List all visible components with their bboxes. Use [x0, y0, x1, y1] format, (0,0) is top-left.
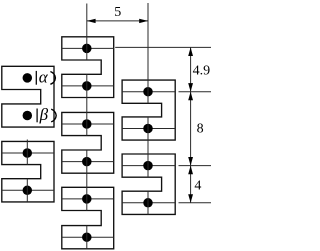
- midline through dot M3b: [62, 236, 114, 238]
- midline through dot M1a: [62, 47, 114, 49]
- arrowhead up at y=47.9: [188, 47, 193, 56]
- arrowheads meeting at y=91.7: [188, 83, 193, 92]
- svg-text:4: 4: [194, 178, 201, 193]
- axis line, left column element L2 (x=27.3): [26, 140, 28, 165]
- resonator R1 (slotted S-element, right column): [122, 80, 175, 140]
- svg-text:α: α: [39, 68, 49, 87]
- dot L1a: [23, 73, 33, 83]
- midline through dot R2a: [122, 165, 175, 167]
- svg-text:β: β: [39, 105, 49, 124]
- angle bracket of |α>: [50, 72, 55, 85]
- midline through dot M2a: [62, 123, 114, 125]
- arrowhead left of dimension 5: [87, 19, 96, 23]
- midline through dot L2b: [2, 189, 54, 191]
- dot R1b: [143, 124, 153, 134]
- dot M1b: [82, 81, 92, 91]
- svg-text:5: 5: [114, 5, 121, 20]
- dot L2a: [23, 148, 33, 158]
- midline through dot R1b: [122, 128, 175, 130]
- midline through dot M1b: [62, 85, 114, 87]
- dot R1a: [143, 87, 153, 97]
- dimension line "5" (top, between column axes): [87, 20, 148, 22]
- angle bracket of |β>: [51, 109, 56, 122]
- midline through dot L2a: [2, 152, 54, 154]
- resonator R2 (slotted S-element, right column): [122, 154, 175, 214]
- resonator M1 (slotted S-element, middle column): [62, 37, 114, 98]
- dot M3a: [82, 194, 92, 204]
- dot R2b: [143, 198, 153, 208]
- tick line at y=202.8: [179, 202, 212, 204]
- axis line, right column (x=148.0): [147, 3, 149, 103]
- midline through dot M3a: [62, 198, 114, 200]
- resonator M3 (slotted S-element, middle column): [62, 187, 114, 249]
- midline through dot M2b: [62, 161, 114, 163]
- reference line at top of right column (y=47.9): [115, 46, 211, 48]
- arrowhead down at y=202.8: [188, 194, 193, 203]
- dot L2b: [23, 186, 33, 196]
- tick line at y=165.6: [179, 165, 212, 167]
- ket bar "|" of |α>: [35, 71, 37, 85]
- dot M3b: [82, 232, 92, 242]
- arrowheads meeting at y=165.6: [188, 157, 193, 166]
- resonator L2 (slotted S-element, left column): [2, 141, 54, 202]
- resonator M2 (slotted S-element, middle column): [62, 112, 114, 173]
- midline through dot R2b: [122, 202, 175, 204]
- arrowhead right of dimension 5: [139, 19, 148, 23]
- resonator L1 (slotted S-element, left column): [2, 66, 54, 127]
- dot M2b: [82, 157, 92, 167]
- axis line, middle column (x=86.8): [86, 4, 88, 61]
- midline through dot R1a: [122, 91, 175, 93]
- ket bar "|" of |β>: [36, 109, 38, 123]
- dot L1b: [23, 111, 33, 121]
- dot M1a: [82, 44, 92, 54]
- svg-text:8: 8: [197, 122, 204, 137]
- dot R2a: [143, 161, 153, 171]
- vertical dimension line x=190.6: [190, 47, 192, 202]
- tick line at y=91.7: [179, 91, 212, 93]
- dot M2a: [82, 119, 92, 129]
- svg-text:4.9: 4.9: [193, 63, 211, 78]
